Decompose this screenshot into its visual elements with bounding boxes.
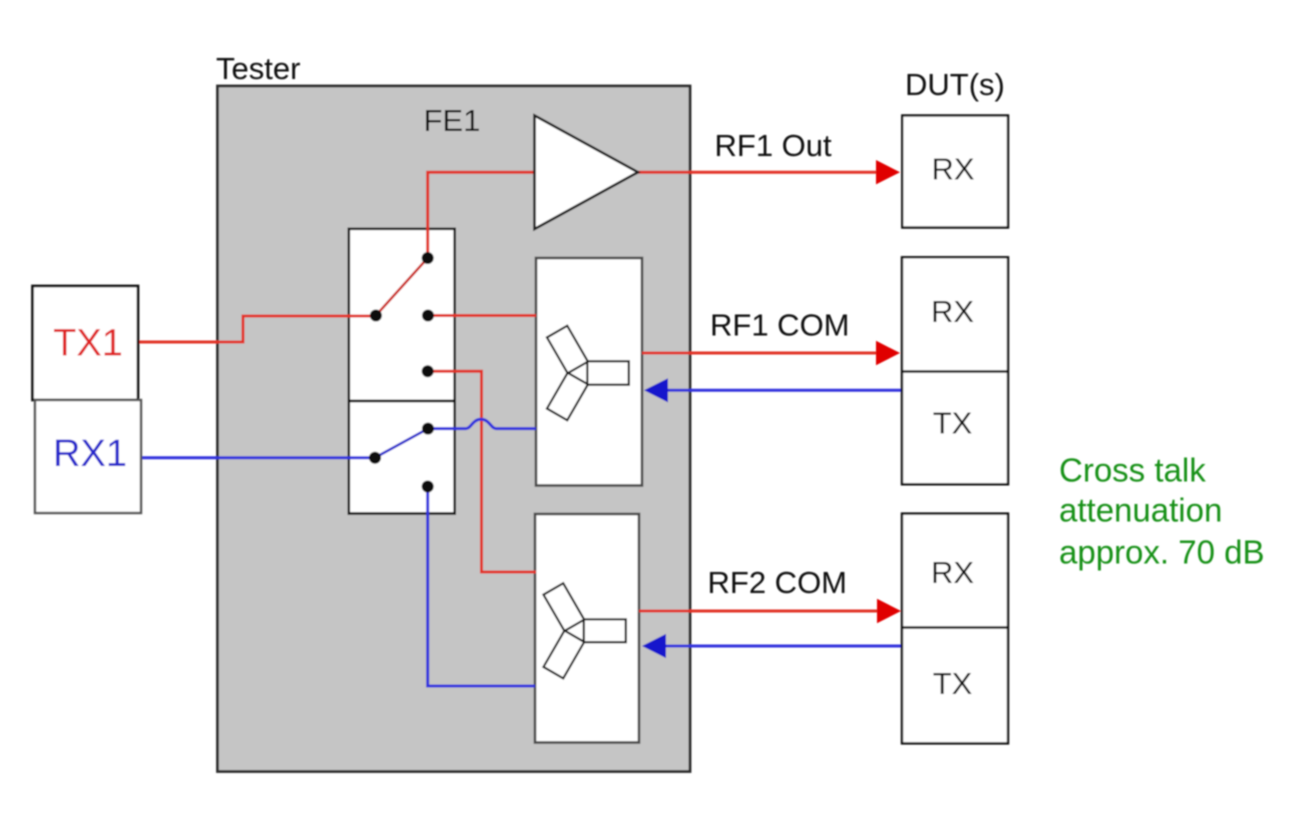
contact dot sw1 right: [422, 310, 434, 322]
contact dot sw2 bottom: [422, 481, 434, 493]
circulator 1 symbol: [547, 326, 629, 420]
switch arm red upper: [376, 258, 428, 316]
circulator 2 box: [535, 514, 639, 743]
svg-text:Tester: Tester: [216, 51, 300, 86]
wire red TX1 to switch: [138, 316, 372, 342]
wire red switch row3 to circulator2: [428, 371, 536, 572]
circulator 2 symbol: [543, 583, 625, 678]
box RX1: [35, 400, 141, 513]
switch arm blue lower: [375, 429, 428, 458]
svg-text:RF1 COM: RF1 COM: [710, 308, 850, 343]
svg-text:Cross talk: Cross talk: [1059, 452, 1206, 489]
svg-text:RX: RX: [931, 152, 974, 187]
wire blue RX1 to switch: [140, 456, 373, 459]
DUT box RX/TX middle: [902, 257, 1008, 484]
svg-text:RF1 Out: RF1 Out: [715, 128, 833, 163]
circulator 1 box: [536, 258, 642, 486]
svg-text:TX1: TX1: [53, 323, 123, 365]
arrowhead blue circulator2: [642, 634, 666, 658]
wire red circulator2 out RF2 COM: [639, 610, 879, 613]
svg-text:approx. 70 dB: approx. 70 dB: [1059, 534, 1264, 571]
wire blue switch bottom to circulator2: [428, 487, 535, 687]
svg-text:TX: TX: [933, 666, 973, 701]
DUT box RX top: [902, 116, 1008, 228]
switch box upper: [349, 229, 455, 401]
svg-text:DUT(s): DUT(s): [905, 67, 1005, 102]
wire blue DUT TX into circulator2: [663, 645, 903, 648]
wire blue switch to circulator1 with hop: [428, 419, 536, 428]
contact dot sw1 left: [370, 310, 382, 322]
box TX1: [33, 286, 139, 400]
wire red circulator1 out RF1 COM: [642, 352, 878, 355]
amplifier FE1: [535, 116, 639, 230]
tester enclosure: [218, 86, 691, 772]
arrowhead red RF1 COM: [876, 341, 900, 365]
svg-text:RX1: RX1: [53, 433, 127, 475]
svg-text:FE1: FE1: [424, 103, 481, 138]
svg-text:TX: TX: [933, 406, 973, 441]
wire red amp output RF1 Out: [638, 171, 878, 174]
arrowhead red RF2 COM: [877, 599, 901, 623]
svg-text:RF2 COM: RF2 COM: [708, 565, 848, 600]
contact dot sw2 right: [422, 423, 434, 435]
contact dot sw2 left: [369, 452, 381, 464]
contact dot sw1 top: [422, 252, 434, 264]
arrowhead red RF1 Out: [876, 160, 900, 184]
arrowhead blue circulator1: [644, 378, 668, 402]
svg-text:attenuation: attenuation: [1059, 492, 1222, 529]
contact dot sw1 row3: [422, 365, 434, 377]
wire red switch top to amp input: [428, 172, 535, 258]
wire red switch row2 to circulator1: [428, 314, 536, 317]
switch box lower: [349, 401, 455, 514]
DUT box RX/TX bottom: [902, 514, 1008, 744]
svg-text:RX: RX: [931, 555, 974, 590]
svg-text:RX: RX: [931, 294, 974, 329]
wire blue DUT TX into circulator1: [665, 389, 903, 392]
